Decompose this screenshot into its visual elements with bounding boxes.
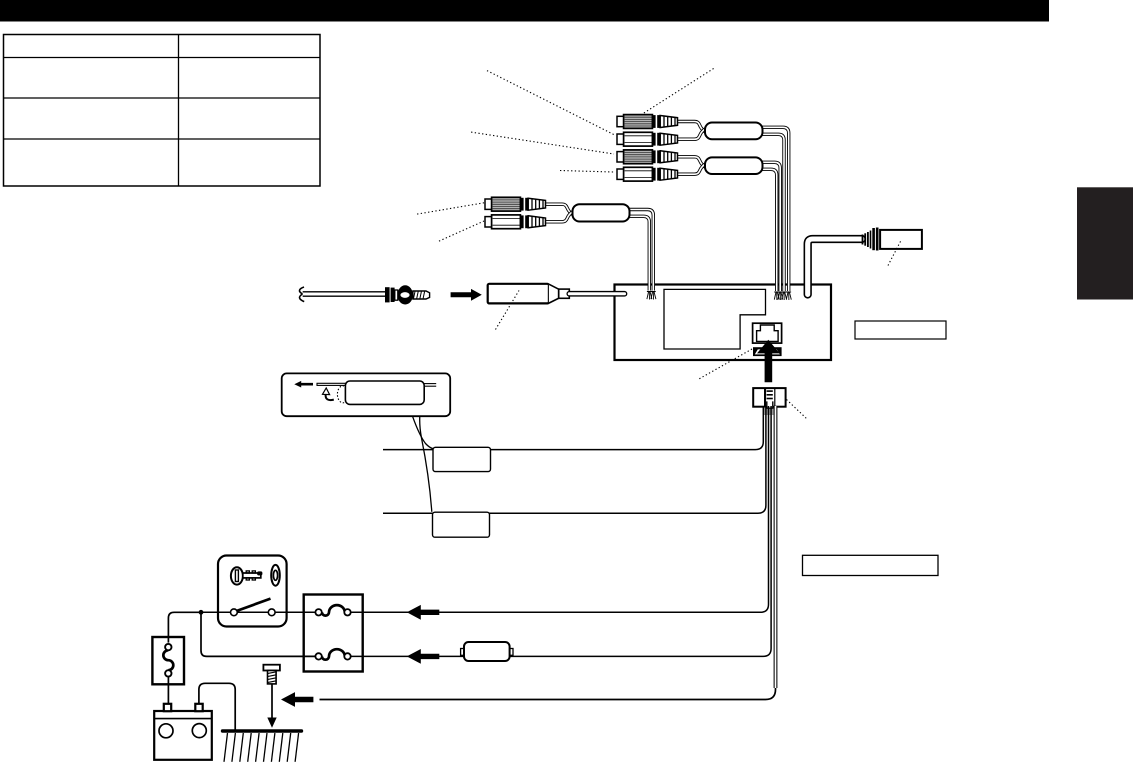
- head unit (control unit) box: [615, 285, 832, 361]
- inset: right lead: [424, 384, 436, 387]
- label box (extension cord): [855, 321, 946, 339]
- wire end ticks (pair3 leads): [647, 292, 652, 300]
- harness wire 1 (to inset fuse): [383, 406, 763, 450]
- inset: fuse capsule: [345, 381, 424, 404]
- harness label box (right): [803, 555, 939, 575]
- header black bar: [0, 0, 1049, 22]
- inset leads to harness wires: [413, 416, 434, 449]
- antenna plug ball: [398, 285, 413, 304]
- noise filter ferrite F3: [573, 204, 630, 221]
- inset: fuse lead wire: [317, 383, 346, 385]
- arrow on ground wire: [281, 692, 313, 707]
- antenna adapter taper: [549, 284, 559, 303]
- dotted leader to pair2 white RCA: [560, 171, 613, 173]
- antenna plug pin: [413, 291, 430, 299]
- dotted leader to pair1 white RCA: [487, 71, 616, 136]
- dotted leader to socket: [698, 349, 752, 380]
- dotted leader to pair3 gray RCA: [417, 203, 485, 214]
- wire 1 label box: [433, 447, 491, 471]
- wire: battery + to fuse holder to junction: [168, 612, 200, 642]
- fuse in single holder: [163, 644, 173, 677]
- harness connector plug below head unit: [753, 388, 785, 415]
- dotted leader to pair1 gray RCA: [643, 69, 714, 114]
- dotted leader to antenna adapter: [496, 291, 520, 330]
- in-line fuse on battery wire: [461, 642, 513, 661]
- key icon: [231, 567, 262, 584]
- harness wire 5 (ground): [320, 686, 776, 700]
- chassis ground bar: [223, 729, 302, 732]
- modular socket on head unit: [753, 323, 782, 343]
- dotted leader to harness connector: [787, 400, 807, 419]
- parts table: [4, 35, 321, 187]
- RCA pair3 gray plug: [485, 197, 546, 211]
- RCA pair3 white plug: [485, 215, 546, 229]
- harness wire 3 (ignition): [351, 406, 769, 612]
- fuse 2 in fuse box: [315, 649, 350, 660]
- antenna plug rings: [385, 287, 390, 302]
- fuse box (vehicle): [304, 595, 363, 672]
- wire end ticks (pair1/pair2 leads): [774, 292, 779, 300]
- wire: junction through ignition switch to fuse box: [201, 611, 316, 613]
- single fuse holder: [152, 637, 184, 684]
- arrow on ignition wire: [407, 605, 440, 620]
- tube wires pair3 RCA to ferrite F3: [545, 204, 577, 222]
- tube wires pair1 RCA to ferrite F1: [677, 122, 709, 140]
- antenna adapter lead into head unit: [569, 291, 624, 297]
- dotted leader to pair2 gray RCA: [471, 132, 614, 154]
- wire 2 label box: [433, 512, 490, 537]
- tube wires pair2 RCA to ferrite F2: [677, 157, 709, 174]
- wire: junction down to bottom fuse: [201, 612, 316, 656]
- battery: [154, 704, 212, 760]
- inset: dotted rotation ellipse: [337, 386, 348, 403]
- ignition switch contacts: [231, 599, 276, 616]
- ground screw: [263, 665, 280, 684]
- RCA pair2 white plug: [617, 167, 678, 181]
- chassis ground hatch: [224, 733, 299, 762]
- right edge black tab: [1077, 187, 1133, 299]
- black arrow (antenna into adapter): [451, 289, 482, 301]
- antenna mast break squiggle: [299, 287, 304, 302]
- tube wires ferrite F3 to head unit: [628, 210, 653, 291]
- junction node: [199, 610, 204, 615]
- antenna extension plug body: [880, 230, 922, 249]
- keyhole icon: [271, 565, 280, 586]
- fuse holder inset box: [282, 373, 451, 416]
- tube wires ferrite F2 to head unit: [761, 162, 780, 291]
- thick black arrow into socket: [757, 340, 780, 383]
- antenna extension plug boot ribs: [863, 228, 878, 251]
- RCA pair1 gray plug: [617, 115, 678, 129]
- inset: rotate arrow: [326, 394, 334, 400]
- dotted leader to extension plug: [888, 240, 902, 266]
- dotted leader to pair3 white RCA: [439, 221, 484, 241]
- RCA pair2 gray plug: [617, 150, 678, 164]
- inset: pull-out arrow: [294, 381, 313, 388]
- screw-to-ground arrow: [271, 685, 273, 719]
- arrow on battery wire: [407, 649, 440, 664]
- antenna adapter collar: [559, 289, 570, 298]
- ignition switch box: [218, 556, 287, 627]
- wire: battery negative to chassis ground: [199, 683, 235, 730]
- antenna mast rod: [303, 291, 386, 297]
- RCA pair1 white plug: [617, 132, 678, 146]
- harness wire 4 (battery): [351, 406, 771, 656]
- antenna extension cord: [808, 239, 862, 295]
- noise filter ferrite F1: [705, 123, 763, 140]
- antenna adapter body: [488, 284, 549, 304]
- socket bottom black mount: [753, 347, 782, 356]
- harness wire 2 (to inset fuse): [383, 406, 766, 513]
- head unit inner panel outline: [664, 289, 766, 349]
- fuse 1 in fuse box: [315, 605, 350, 615]
- noise filter ferrite F2: [705, 157, 763, 174]
- tube wires ferrite F1 to head unit: [761, 127, 789, 291]
